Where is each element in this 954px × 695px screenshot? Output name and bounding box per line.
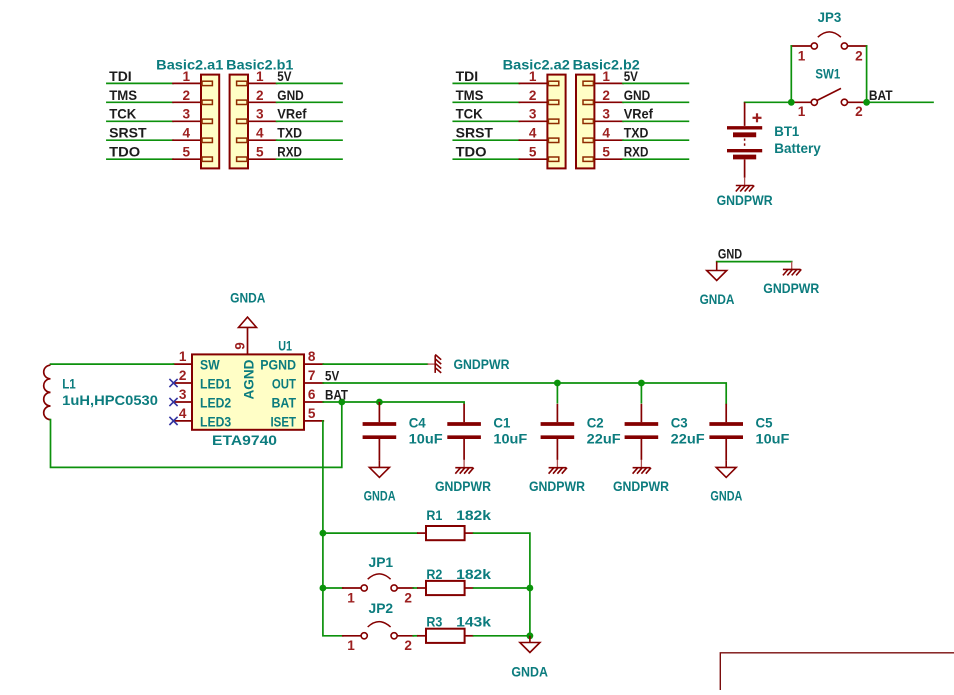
capacitor C2 pin 2 [556, 439, 558, 460]
connector Basic2.a1 pin number 2 [183, 88, 191, 103]
U1 pin 2 lead [174, 382, 193, 384]
switch SW1 pole circle 2 [841, 99, 847, 105]
svg-text:10uF: 10uF [409, 432, 443, 447]
connector Basic2.a1 pin 4 stub [202, 138, 212, 142]
svg-text:4: 4 [256, 126, 264, 141]
capacitor C3 pin 2 [640, 439, 642, 460]
connector Basic2.a1 pin number 4 [183, 126, 191, 141]
svg-text:GNDA: GNDA [230, 291, 265, 306]
wire TDO to Basic2.a2 pin 5 [453, 158, 519, 160]
net label RXD (group 1) [277, 145, 302, 160]
jumper JP1 arc [368, 574, 391, 579]
wire TDI to Basic2.a2 pin 1 [453, 82, 519, 84]
svg-text:TXD: TXD [624, 126, 649, 141]
connector Basic2.a1 pin 5 stub [202, 157, 212, 161]
jumper JP2 pin 1 lead [343, 635, 361, 637]
wire battery top to SW1 pin 1 [745, 101, 792, 103]
svg-text:5: 5 [256, 145, 264, 160]
svg-text:182k: 182k [456, 508, 491, 523]
svg-text:143k: 143k [456, 615, 491, 630]
jumper JP1 pin number 2 [404, 590, 412, 605]
wire Basic2.b2 pin 3 to VRef [623, 120, 688, 122]
wire ladder left riser [323, 533, 343, 636]
U1 pin 9 lead (AGND) [247, 327, 249, 354]
connector Basic2.a2 body [547, 75, 565, 169]
svg-text:GNDPWR: GNDPWR [613, 479, 669, 494]
U1 pin name AGND [241, 359, 256, 399]
junction BAT rail / C4 [376, 399, 383, 406]
capacitor C2 reference label [587, 415, 604, 430]
svg-text:4: 4 [179, 406, 187, 421]
connector Basic2.a1 pin 5 lead [173, 158, 201, 160]
battery BT1 value Battery [774, 141, 821, 156]
resistor R1 body [426, 526, 465, 540]
svg-text:JP1: JP1 [369, 555, 394, 570]
capacitor C5 reference label [756, 415, 773, 430]
resistor R3 pin 1 [417, 635, 426, 637]
svg-text:GNDPWR: GNDPWR [763, 281, 819, 296]
jumper JP3 reference [818, 10, 842, 25]
svg-text:TCK: TCK [456, 107, 483, 122]
connector Basic2.b2 pin 2 lead [594, 101, 623, 103]
svg-text:TDI: TDI [109, 69, 132, 84]
resistor R3 value 143k [456, 615, 491, 630]
wire JP3 pin2 to BAT node (right riser) [866, 46, 868, 102]
net label 5V (U1 OUT) [325, 368, 339, 383]
svg-text:TDI: TDI [456, 69, 479, 84]
junction ladder left / R1 row [320, 530, 327, 537]
junction SW1 pin2 / BAT net / JP3 [863, 99, 870, 106]
U1 pin name LED2 [200, 395, 232, 410]
wire R1 row left [323, 532, 417, 534]
resistor R1 pin 2 [465, 532, 474, 534]
net label VRef (group 2) [624, 107, 654, 122]
power symbol GNDA (C4) [369, 461, 389, 478]
capacitor C4 pin 2 [378, 439, 380, 461]
capacitor C5 plates [709, 424, 743, 437]
power label GNDA (C5) [710, 488, 742, 503]
svg-text:GNDPWR: GNDPWR [454, 357, 510, 372]
svg-text:LED3: LED3 [200, 414, 232, 429]
U1 pin number 1 [179, 349, 187, 364]
U1 pin name ISET [271, 414, 297, 429]
svg-text:2: 2 [404, 590, 412, 605]
svg-text:7: 7 [308, 368, 316, 383]
svg-text:SW1: SW1 [815, 67, 840, 82]
resistor R3 pin 2 [465, 635, 474, 637]
svg-text:C4: C4 [409, 415, 426, 430]
op-amp U1 body (ETA9740) [192, 354, 304, 429]
connector Basic2.a2 pin 5 lead [519, 158, 547, 160]
net label TCK (group 1) [109, 107, 136, 122]
connector Basic2.a1 pin 3 lead [173, 120, 201, 122]
U1 pin 6 lead [304, 401, 323, 403]
wire U1 ISET to divider ladder [322, 421, 324, 533]
svg-text:1: 1 [529, 69, 537, 84]
resistor R1 reference [426, 508, 442, 523]
svg-text:5: 5 [529, 145, 537, 160]
svg-text:10uF: 10uF [493, 432, 527, 447]
wire R3 row right [474, 635, 530, 637]
connector Basic2.b2 pin 4 stub [583, 138, 593, 142]
U1 pin 8 lead [304, 363, 323, 365]
connector Basic2.b2 pin number 1 [602, 69, 610, 84]
connector Basic2.b1 pin number 2 [256, 88, 264, 103]
connector Basic2.b1 pin number 4 [256, 126, 264, 141]
connector Basic2.b1 pin number 3 [256, 107, 264, 122]
power label GNDA (C4) [364, 489, 396, 504]
svg-text:1: 1 [347, 590, 355, 605]
wire Basic2.b1 pin 5 to RXD [277, 158, 342, 160]
svg-text:C3: C3 [671, 415, 688, 430]
svg-text:2: 2 [602, 88, 610, 103]
switch SW1 pole circle 1 [811, 99, 817, 105]
svg-text:2: 2 [256, 88, 264, 103]
battery BT1 reference [774, 124, 799, 139]
capacitor C4 pin 1 [378, 402, 380, 422]
capacitor C2 value label [587, 432, 621, 447]
svg-text:JP2: JP2 [369, 601, 394, 616]
net label TXD (group 1) [277, 126, 302, 141]
junction 5V rail / C2 [554, 380, 561, 387]
svg-text:PGND: PGND [260, 358, 296, 373]
U1 pin 3 lead [174, 401, 193, 403]
junction 5V rail / C3 [638, 380, 645, 387]
svg-text:Battery: Battery [774, 141, 821, 156]
junction ladder right / R3 row / GNDA [527, 632, 534, 639]
net label SRST (group 2) [456, 126, 494, 141]
U1 pin 4 lead [174, 420, 193, 422]
power symbol GNDA (tie) [707, 262, 727, 281]
connector Basic2.a2 pin 1 stub [548, 81, 558, 85]
jumper JP1 reference [369, 555, 394, 570]
inductor L1 value 1uH,HPC0530 [62, 393, 158, 408]
net label 5V (group 2) [624, 69, 638, 84]
jumper JP1 pin number 1 [347, 590, 355, 605]
power label GNDA (divider) [511, 664, 548, 679]
net label 5V (group 1) [277, 69, 291, 84]
wire 5V rail drop to C3 [640, 383, 642, 404]
net label TDI (group 2) [456, 69, 479, 84]
svg-text:2: 2 [404, 638, 412, 653]
U1 pin number 6 [308, 387, 316, 402]
svg-text:JP3: JP3 [818, 10, 842, 25]
connector Basic2.a2 pin number 4 [529, 126, 537, 141]
svg-text:GNDPWR: GNDPWR [717, 193, 773, 208]
power symbol GNDA (C5) [716, 461, 736, 478]
wire TMS to Basic2.a1 pin 2 [107, 101, 173, 103]
svg-text:2: 2 [183, 88, 191, 103]
net label BAT (U1 BAT pin) [325, 387, 349, 402]
svg-text:BAT: BAT [869, 88, 893, 103]
connector Basic2.b2 pin number 4 [602, 126, 610, 141]
connector Basic2.a2 pin number 1 [529, 69, 537, 84]
connector Basic2.a1 pin 1 lead [173, 82, 201, 84]
svg-text:GND: GND [718, 247, 742, 262]
connector Basic2.b2 pin number 5 [602, 145, 610, 160]
power symbol GNDPWR (U1 PGND) [427, 355, 441, 373]
power label GNDPWR (U1 PGND) [454, 357, 510, 372]
switch SW1 pin number 1 [798, 104, 806, 119]
jumper JP2 pin number 2 [404, 638, 412, 653]
wire TDO to Basic2.a1 pin 5 [107, 158, 173, 160]
capacitor C1 pin 2 [463, 439, 465, 460]
svg-text:SRST: SRST [109, 126, 147, 141]
connector Basic2.a1 pin number 5 [183, 145, 191, 160]
connector Basic2.b1 pin 2 lead [248, 101, 277, 103]
capacitor C1 plates [447, 424, 481, 437]
wire Basic2.b2 pin 2 to GND [623, 101, 688, 103]
svg-text:AGND: AGND [241, 359, 256, 399]
no-connect X on U1 pin 3 [169, 398, 177, 406]
connector Basic2.b1 pin number 1 [256, 69, 264, 84]
net label GND (group 2) [624, 88, 651, 103]
connector Basic2.a2 pin 5 stub [548, 157, 558, 161]
power label GNDPWR (C1) [435, 479, 491, 494]
jumper JP2 pin number 1 [347, 638, 355, 653]
connector Basic2.a2 pin 1 lead [519, 82, 547, 84]
svg-text:GNDPWR: GNDPWR [435, 479, 491, 494]
wire Basic2.b2 pin 5 to RXD [623, 158, 688, 160]
jumper JP2 pin 2 lead [397, 635, 413, 637]
capacitor C3 pin 1 [640, 404, 642, 422]
svg-text:U1: U1 [278, 339, 292, 354]
svg-text:TMS: TMS [109, 88, 137, 103]
power symbol GNDA (divider) [520, 636, 540, 653]
svg-text:1: 1 [347, 638, 355, 653]
resistor R2 body [426, 581, 465, 595]
capacitor C3 value label [671, 432, 705, 447]
svg-text:3: 3 [602, 107, 610, 122]
jumper JP2 arc [368, 622, 391, 627]
no-connect X on U1 pin 4 [169, 417, 177, 425]
jumper JP1 pin 1 lead [343, 587, 361, 589]
connector Basic2.a1 pin number 1 [183, 69, 191, 84]
connector Basic2.a2 pin 3 lead [519, 120, 547, 122]
power symbol GNDPWR (C3) [633, 460, 651, 474]
U1 pin name SW [200, 358, 220, 373]
svg-text:5: 5 [602, 145, 610, 160]
connector Basic2.b2 pin 3 lead [594, 120, 623, 122]
U1 pin name LED3 [200, 414, 232, 429]
connector Basic2.b2 pin 5 stub [583, 157, 593, 161]
resistor R3 body [426, 629, 465, 643]
U1 pin number 5 [308, 406, 316, 421]
resistor R1 pin 1 [417, 532, 426, 534]
connector Basic2.a2 pin 2 stub [548, 100, 558, 104]
svg-text:1: 1 [798, 104, 806, 119]
connector Basic2.b2 pin 2 stub [583, 100, 593, 104]
wire JP2 to R3 [413, 635, 417, 637]
U1 pin number 7 [308, 368, 316, 383]
connector J1b reference Basic2.b1 [226, 58, 294, 73]
capacitor C1 pin 1 [463, 404, 465, 422]
resistor R2 pin 1 [417, 587, 426, 589]
svg-text:TDO: TDO [456, 145, 487, 160]
no-connect X on U1 pin 2 [169, 379, 177, 387]
U1 pin 5 lead [304, 420, 323, 422]
connector Basic2.a1 body [201, 75, 219, 169]
svg-text:2: 2 [179, 368, 187, 383]
net label TDO (group 1) [109, 145, 140, 160]
connector J2a reference Basic2.a2 [503, 58, 571, 73]
connector Basic2.b1 pin 1 lead [248, 82, 277, 84]
capacitor C4 value label [409, 432, 443, 447]
power label GNDPWR (C3) [613, 479, 669, 494]
switch SW1 reference [815, 67, 840, 82]
jumper JP1 pad 1 circle [361, 585, 367, 591]
battery BT1 plus sign [753, 113, 762, 122]
svg-text:BT1: BT1 [774, 124, 799, 139]
svg-text:182k: 182k [456, 567, 491, 582]
svg-text:3: 3 [179, 387, 187, 402]
svg-text:3: 3 [256, 107, 264, 122]
capacitor C4 reference label [409, 415, 426, 430]
net label TMS (group 2) [456, 88, 484, 103]
capacitor C2 plates [541, 424, 575, 437]
svg-text:4: 4 [529, 126, 537, 141]
wire U1 PGND to GNDPWR [323, 363, 427, 365]
svg-text:5V: 5V [325, 368, 339, 383]
wire TCK to Basic2.a2 pin 3 [453, 120, 519, 122]
switch SW1 blade [817, 88, 841, 100]
net label GND (group 1) [277, 88, 304, 103]
power label GNDPWR (tie) [763, 281, 819, 296]
U1 pin name OUT [272, 376, 297, 391]
svg-text:L1: L1 [62, 376, 76, 391]
svg-text:LED1: LED1 [200, 376, 232, 391]
connector Basic2.b1 pin 2 stub [237, 100, 247, 104]
resistor R2 value 182k [456, 567, 491, 582]
wire TDI to Basic2.a1 pin 1 [107, 82, 173, 84]
net label TXD (group 2) [624, 126, 649, 141]
wire R1 row right to riser [474, 533, 530, 636]
svg-text:GND: GND [277, 88, 304, 103]
jumper JP3 arc [818, 32, 841, 37]
svg-text:2: 2 [855, 104, 863, 119]
power label GNDPWR (battery) [717, 193, 773, 208]
svg-text:OUT: OUT [272, 376, 297, 391]
svg-text:R1: R1 [426, 508, 442, 523]
net label VRef (group 1) [277, 107, 307, 122]
U1 pin name BAT [272, 395, 297, 410]
power symbol GNDPWR (tie) [783, 262, 801, 276]
sheet border corner (bottom right) [720, 653, 954, 690]
connector Basic2.b2 pin number 3 [602, 107, 610, 122]
capacitor C3 plates [625, 424, 659, 437]
resistor R2 pin 2 [465, 587, 474, 589]
svg-text:22uF: 22uF [587, 432, 621, 447]
jumper JP3 pin number 2 [855, 48, 863, 63]
wire JP1 row left [323, 587, 343, 589]
svg-text:GND: GND [624, 88, 651, 103]
svg-text:1: 1 [183, 69, 191, 84]
jumper JP3 pin 1 lead [791, 45, 811, 47]
battery BT1 cell plates [727, 128, 762, 157]
connector Basic2.b1 pin 5 lead [248, 158, 277, 160]
wire Basic2.b1 pin 3 to VRef [277, 120, 342, 122]
jumper JP3 pad 2 circle [841, 43, 847, 49]
svg-text:5V: 5V [624, 69, 638, 84]
inductor L1 reference [62, 376, 76, 391]
svg-text:TDO: TDO [109, 145, 140, 160]
svg-text:GNDPWR: GNDPWR [529, 479, 585, 494]
wire TCK to Basic2.a1 pin 3 [107, 120, 173, 122]
power symbol GNDA (U1 pin 9) [239, 317, 257, 327]
svg-text:8: 8 [308, 349, 316, 364]
svg-text:10uF: 10uF [756, 432, 790, 447]
connector Basic2.a1 pin 2 stub [202, 100, 212, 104]
wire Basic2.b1 pin 2 to GND [277, 101, 342, 103]
net label TMS (group 1) [109, 88, 137, 103]
svg-text:5: 5 [308, 406, 316, 421]
wire 5V rail drop to C2 [556, 383, 558, 404]
connector Basic2.b1 pin 5 stub [237, 157, 247, 161]
wire BAT net to right edge [867, 101, 933, 103]
U1 pin name LED1 [200, 376, 232, 391]
svg-text:ETA9740: ETA9740 [212, 433, 277, 448]
switch SW1 pin number 2 [855, 104, 863, 119]
U1 pin 7 lead [304, 382, 323, 384]
power label GNDPWR (C2) [529, 479, 585, 494]
wire Basic2.b2 pin 1 to 5V [623, 82, 688, 84]
wire Basic2.b1 pin 1 to 5V [277, 82, 342, 84]
wire U1 OUT 5V rail [323, 383, 726, 404]
U1 reference [278, 339, 292, 354]
svg-text:GNDA: GNDA [511, 664, 548, 679]
connector Basic2.b1 pin 3 stub [237, 119, 247, 123]
U1 pin name PGND [260, 358, 296, 373]
net label GND (tie) [718, 247, 742, 262]
svg-text:5V: 5V [277, 69, 291, 84]
connector Basic2.b2 pin 1 lead [594, 82, 623, 84]
wire R2 row right [474, 587, 530, 589]
connector Basic2.b1 pin 1 stub [237, 81, 247, 85]
svg-text:9: 9 [233, 342, 248, 350]
battery BT1 pin - (bottom lead) [744, 160, 746, 178]
svg-text:2: 2 [529, 88, 537, 103]
resistor R1 value 182k [456, 508, 491, 523]
power label GNDA (tie) [700, 292, 735, 307]
capacitor C1 reference label [493, 415, 510, 430]
svg-text:5: 5 [183, 145, 191, 160]
svg-text:C2: C2 [587, 415, 604, 430]
svg-text:R3: R3 [426, 615, 442, 630]
connector Basic2.a2 pin 4 stub [548, 138, 558, 142]
wire GNDA to GNDPWR tie [717, 261, 792, 263]
svg-text:RXD: RXD [277, 145, 302, 160]
svg-text:TXD: TXD [277, 126, 302, 141]
jumper JP2 reference [369, 601, 394, 616]
jumper JP1 pin 2 lead [397, 587, 413, 589]
svg-text:22uF: 22uF [671, 432, 705, 447]
connector Basic2.b1 pin 4 lead [248, 139, 277, 141]
wire SRST to Basic2.a1 pin 4 [107, 139, 173, 141]
jumper JP3 pad 1 circle [811, 43, 817, 49]
svg-text:4: 4 [602, 126, 610, 141]
svg-text:VRef: VRef [277, 107, 307, 122]
svg-text:1: 1 [602, 69, 610, 84]
junction ladder left / JP1 row [320, 585, 327, 592]
U1 pin number 3 [179, 387, 187, 402]
U1 pin number 4 [179, 406, 187, 421]
inductor L1 coil [44, 365, 51, 419]
svg-text:1: 1 [179, 349, 187, 364]
net label RXD (group 2) [624, 145, 649, 160]
connector Basic2.a2 pin number 2 [529, 88, 537, 103]
resistor R3 reference [426, 615, 442, 630]
connector Basic2.b2 pin 1 stub [583, 81, 593, 85]
